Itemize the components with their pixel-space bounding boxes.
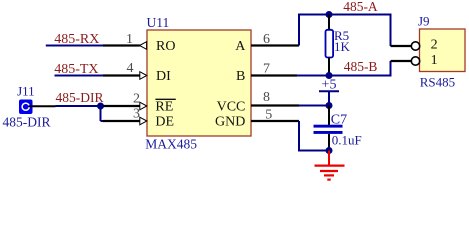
svg-text:8: 8 xyxy=(263,90,270,105)
wire DIR branch down to DE xyxy=(101,106,104,121)
svg-text:485-RX: 485-RX xyxy=(54,32,99,47)
svg-text:VCC: VCC xyxy=(217,100,246,115)
svg-text:RO: RO xyxy=(156,39,175,54)
junction dot at DIR split xyxy=(97,103,104,110)
pin 3 DE wire xyxy=(103,117,147,125)
svg-text:5: 5 xyxy=(265,108,272,123)
svg-text:U11: U11 xyxy=(147,15,170,30)
pin 2 RE wire xyxy=(103,102,147,110)
svg-text:2: 2 xyxy=(431,38,438,53)
connector J9 body xyxy=(420,29,466,72)
junction dot B / R5 bottom xyxy=(326,72,333,79)
svg-text:1: 1 xyxy=(431,53,438,68)
J11 pin (black) xyxy=(29,105,56,107)
pin 1 RO wire xyxy=(103,42,147,50)
svg-text:0.1uF: 0.1uF xyxy=(332,133,362,148)
IC U11 MAX485 body xyxy=(147,30,251,136)
svg-text:C7: C7 xyxy=(331,113,347,128)
svg-text:3: 3 xyxy=(133,107,140,122)
svg-text:1K: 1K xyxy=(334,39,351,54)
power port +5 xyxy=(319,78,339,106)
svg-text:GND: GND xyxy=(215,115,245,130)
wire net 485-RX stub xyxy=(46,45,103,47)
svg-text:2: 2 xyxy=(133,91,140,106)
J9 pin 1 xyxy=(391,57,420,65)
svg-text:485-A: 485-A xyxy=(343,0,378,14)
wire net 485-TX stub xyxy=(55,75,104,77)
pin 7 B wire (black) xyxy=(251,74,297,76)
junction dot GND node xyxy=(326,147,333,154)
svg-text:J11: J11 xyxy=(17,84,35,99)
capacitor C7 xyxy=(314,106,343,151)
svg-text:RE: RE xyxy=(155,100,173,115)
pin 4 DI wire xyxy=(103,72,147,80)
svg-text:DE: DE xyxy=(155,115,174,130)
svg-text:J9: J9 xyxy=(418,14,430,29)
svg-text:485-TX: 485-TX xyxy=(54,62,98,77)
wire net 485-A rail xyxy=(299,15,391,47)
svg-text:485-DIR: 485-DIR xyxy=(56,90,104,105)
svg-text:MAX485: MAX485 xyxy=(145,137,197,152)
svg-text:6: 6 xyxy=(263,32,270,47)
svg-text:+5: +5 xyxy=(322,78,337,93)
svg-text:7: 7 xyxy=(263,62,270,77)
connector J11 xyxy=(19,100,33,115)
pin 5 GND wire (black) xyxy=(251,120,299,122)
svg-text:1: 1 xyxy=(126,32,133,47)
svg-text:485-DIR: 485-DIR xyxy=(3,115,51,130)
wire VCC xyxy=(299,105,329,107)
svg-text:B: B xyxy=(236,69,245,84)
J9 pin 2 xyxy=(391,42,420,50)
junction dot VCC node xyxy=(326,102,333,109)
svg-text:485-B: 485-B xyxy=(344,59,378,74)
pin 6 A wire (black) xyxy=(251,44,299,46)
pin name RE with overline xyxy=(155,99,175,114)
ground symbol xyxy=(315,151,345,180)
junction dot rail / R5 top xyxy=(326,11,333,18)
pin 8 VCC wire (black) xyxy=(251,104,299,106)
wire net 485-B xyxy=(297,61,391,76)
svg-text:DI: DI xyxy=(156,69,171,84)
wire net 485-DIR xyxy=(56,105,101,107)
wire GND from pin 5 xyxy=(299,121,329,151)
svg-text:RS485: RS485 xyxy=(420,75,455,90)
svg-text:A: A xyxy=(235,39,246,54)
resistor R5 xyxy=(326,15,334,76)
svg-text:4: 4 xyxy=(127,61,134,76)
